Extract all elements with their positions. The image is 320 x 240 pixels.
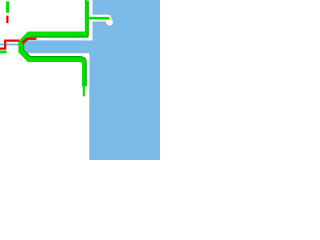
thin river west [0, 44, 25, 46]
bright green river loop [21, 34, 88, 63]
red route west branch [0, 41, 19, 49]
dark green route water side [24, 1, 89, 87]
pier green core [87, 17, 109, 20]
casing north-east corner [84, 0, 93, 40]
green bar top left [6, 1, 9, 13]
red bar top left [6, 16, 8, 24]
land background [0, 0, 160, 160]
pier casing [89, 18, 110, 22]
bright green south vertical [82, 62, 85, 87]
red route along north bank [22, 39, 37, 43]
green tail [83, 86, 85, 96]
casing south vertical [80, 58, 89, 87]
sea and river [24, 0, 160, 160]
green stub west [0, 50, 5, 53]
bright green north vertical [85, 0, 87, 35]
